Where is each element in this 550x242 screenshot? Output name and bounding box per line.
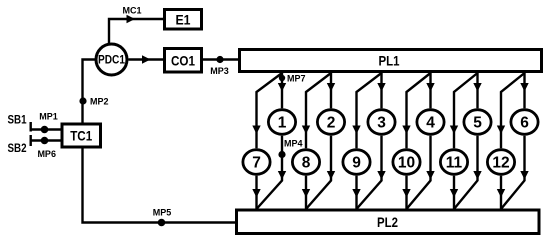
wire load 5 down to PL2 <box>454 136 478 209</box>
load 7 <box>243 150 270 175</box>
arrowhead into load 8 <box>302 126 310 135</box>
wire PL1 diagonal down through load 9 <box>357 73 382 148</box>
arrowhead below load 10 <box>402 189 410 198</box>
arrowhead into load 4 <box>426 83 434 92</box>
svg-text:MP6: MP6 <box>37 149 56 159</box>
wire load 1 down to PL2 <box>257 136 283 209</box>
node MP1 <box>39 112 58 134</box>
arrowhead into load 12 <box>497 126 505 135</box>
wire PDC1 down to TC1 <box>83 60 96 124</box>
block CO1 <box>165 49 202 73</box>
svg-text:PL2: PL2 <box>377 214 398 230</box>
source terminal SB2 <box>8 135 31 155</box>
arrowhead below load 6 <box>520 171 528 180</box>
svg-text:5: 5 <box>473 114 482 131</box>
arrowhead into load 6 <box>520 83 528 92</box>
load 11 <box>440 150 467 175</box>
load 4 <box>417 110 444 135</box>
arrowhead into load 11 <box>450 126 458 135</box>
load 10 <box>393 150 420 175</box>
svg-text:2: 2 <box>327 114 336 131</box>
wire load 7 down to PL2 <box>255 176 257 209</box>
block PL2 (return plenum) <box>237 210 540 234</box>
svg-text:11: 11 <box>446 154 463 171</box>
wire SB2 to TC1 <box>31 139 62 141</box>
svg-text:SB2: SB2 <box>8 141 27 155</box>
block PL1 (supply plenum) <box>240 50 542 72</box>
svg-text:PL1: PL1 <box>379 52 400 68</box>
load 9 <box>343 150 370 175</box>
svg-text:4: 4 <box>426 114 435 131</box>
wire PL1 diagonal down through load 10 <box>407 73 431 148</box>
arrowhead below load 3 <box>377 171 385 180</box>
arrowhead into load 5 <box>473 83 481 92</box>
arrowhead into load 7 <box>252 126 260 135</box>
load 12 <box>487 150 514 175</box>
wire PL1 down through load 5 (upper segment) <box>476 73 478 108</box>
wire PL1 down through load 1 (upper segment) <box>281 73 283 108</box>
wire PDC1 to CO1 <box>129 58 164 60</box>
svg-text:MP2: MP2 <box>90 97 109 107</box>
block E1 <box>165 10 202 30</box>
node MP2 <box>79 97 108 107</box>
svg-text:12: 12 <box>492 154 509 171</box>
wire load 9 down to PL2 <box>355 176 357 209</box>
svg-text:3: 3 <box>377 114 386 131</box>
pump PDC1 <box>96 44 127 75</box>
svg-text:10: 10 <box>398 154 415 171</box>
load 5 <box>464 110 491 135</box>
arrowhead into load 9 <box>352 126 360 135</box>
wire PL1 down through load 3 (upper segment) <box>380 73 382 108</box>
wire load 8 down to PL2 <box>305 176 307 209</box>
arrowhead below load 2 <box>327 171 335 180</box>
svg-text:MP5: MP5 <box>153 208 172 218</box>
block TC1 <box>62 124 101 147</box>
arrowhead below load 7 <box>252 189 260 198</box>
node MP6 <box>37 137 56 159</box>
node MP5 <box>153 208 172 227</box>
svg-text:6: 6 <box>520 114 529 131</box>
arrowhead into load 3 <box>377 83 385 92</box>
svg-text:MP3: MP3 <box>210 66 229 76</box>
arrowhead below load 9 <box>352 189 360 198</box>
wire PL1 down through load 4 (upper segment) <box>429 73 431 108</box>
arrowhead into load 2 <box>327 83 335 92</box>
wire PL1 diagonal down through load 7 <box>257 73 283 148</box>
arrowhead into load 1 <box>278 83 286 92</box>
wire load 11 down to PL2 <box>453 176 455 209</box>
load 2 <box>317 110 344 135</box>
arrowhead into load 10 <box>402 126 410 135</box>
wire PL1 down through load 2 (upper segment) <box>330 73 332 108</box>
wire load 4 down to PL2 <box>407 136 431 209</box>
arrowhead below load 8 <box>302 189 310 198</box>
node MP3 <box>210 56 229 76</box>
wire CO1 to PL1 <box>203 58 238 60</box>
arrowhead below load 11 <box>450 189 458 198</box>
svg-text:PDC1: PDC1 <box>98 53 125 67</box>
wire load 10 down to PL2 <box>405 176 407 209</box>
svg-text:MP7: MP7 <box>287 74 306 84</box>
arrowhead PDC1-CO1 <box>142 55 151 63</box>
source terminal SB1 <box>8 113 31 132</box>
arrowhead below load 1 <box>278 171 286 180</box>
arrowhead below load 12 <box>497 189 505 198</box>
load 8 <box>292 150 319 175</box>
node MP4 <box>278 139 302 159</box>
svg-text:MC1: MC1 <box>122 6 141 16</box>
svg-text:7: 7 <box>252 154 261 171</box>
wire PL1 diagonal down through load 11 <box>454 73 478 148</box>
svg-text:8: 8 <box>302 154 311 171</box>
wire SB1 to TC1 <box>31 128 62 130</box>
wire load 2 down to PL2 <box>306 136 331 209</box>
wire load 3 down to PL2 <box>357 136 382 209</box>
svg-text:TC1: TC1 <box>70 128 92 144</box>
wire load 12 down to PL2 <box>500 176 502 209</box>
arrowhead below load 4 <box>426 171 434 180</box>
wire PL1 down through load 6 (upper segment) <box>523 73 525 108</box>
svg-text:9: 9 <box>352 154 361 171</box>
wire TC1 down to PL2 (MP5 line) <box>83 147 236 223</box>
svg-text:CO1: CO1 <box>171 53 195 69</box>
load 1 <box>268 110 295 135</box>
label MC1 <box>122 6 141 16</box>
wire PL1 diagonal down through load 8 <box>306 73 331 148</box>
svg-text:1: 1 <box>278 114 287 131</box>
load 3 <box>368 110 395 135</box>
load 6 <box>511 110 538 135</box>
arrowhead below load 5 <box>473 171 481 180</box>
wire load 6 down to PL2 <box>501 136 525 209</box>
arrowhead on MC1 line <box>127 15 136 23</box>
wire PDC1 to E1 (MC1 line) <box>109 19 163 44</box>
wire PL1 diagonal down through load 12 <box>501 73 525 148</box>
svg-text:MP1: MP1 <box>39 112 58 122</box>
node MP7 <box>279 74 306 84</box>
svg-text:E1: E1 <box>176 12 191 28</box>
svg-text:MP4: MP4 <box>284 139 303 149</box>
svg-text:SB1: SB1 <box>8 113 27 127</box>
